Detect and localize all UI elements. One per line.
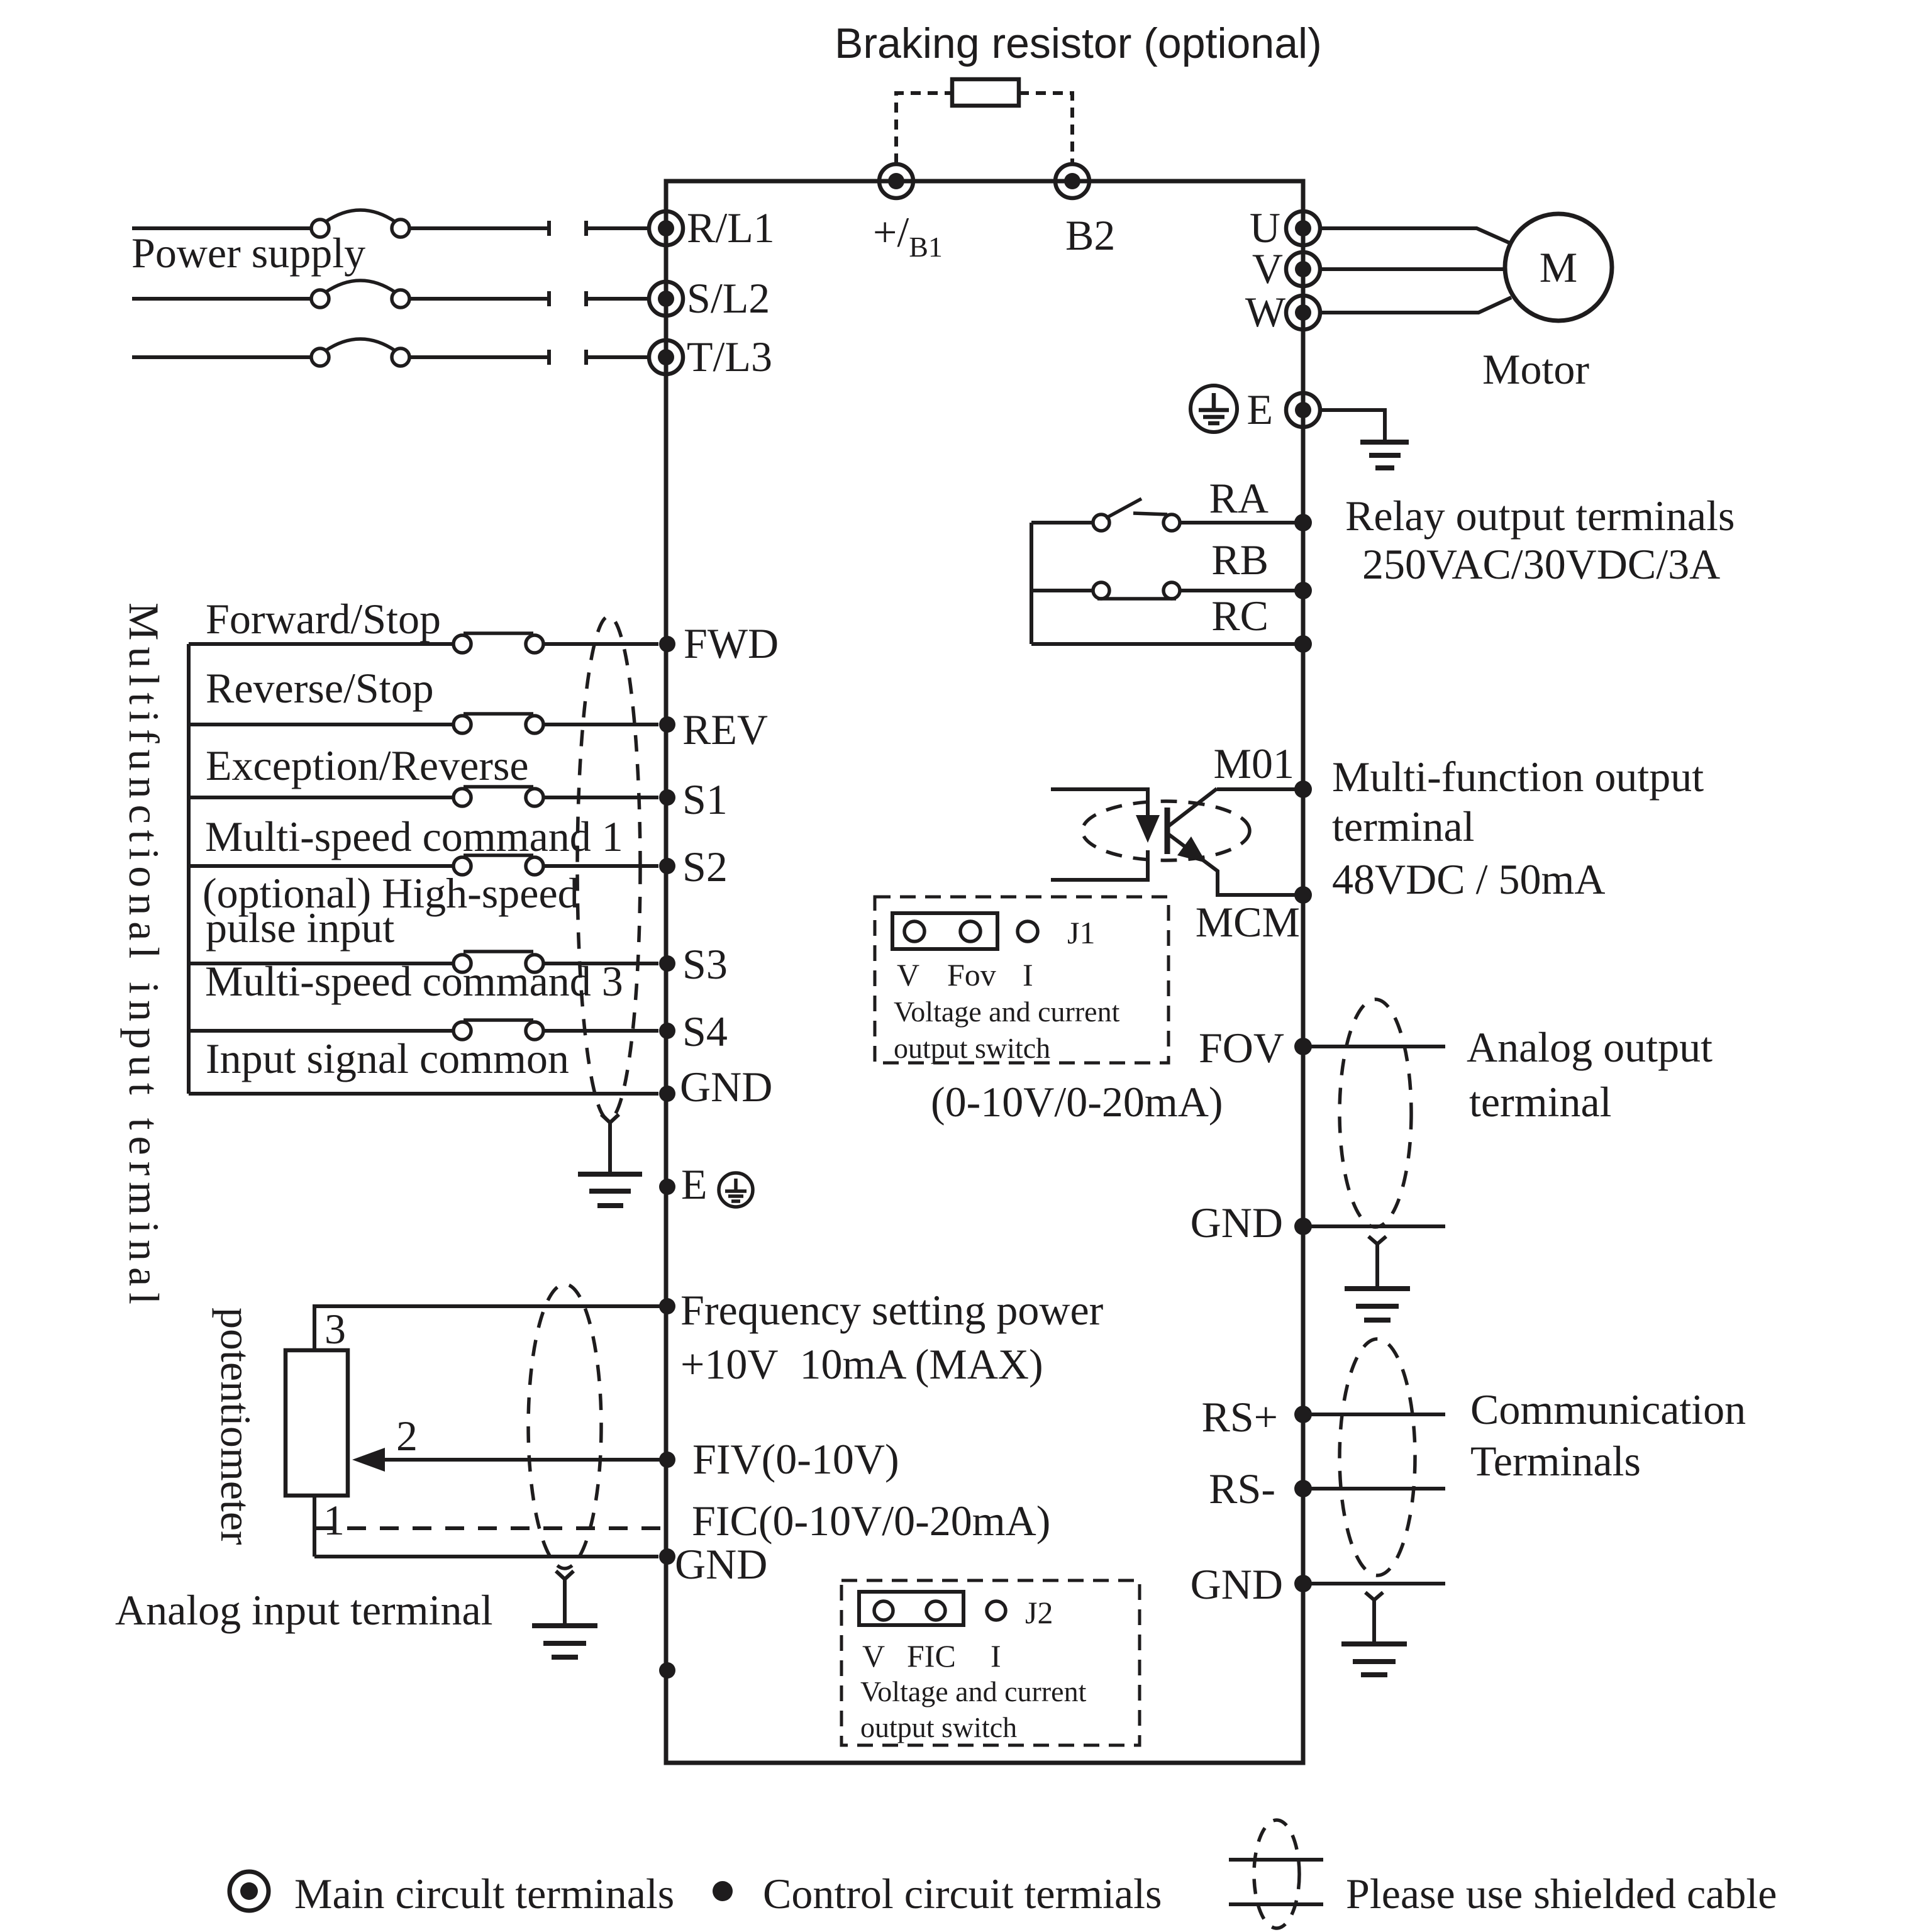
svg-text:output switch: output switch xyxy=(860,1711,1017,1743)
svg-text:output switch: output switch xyxy=(894,1032,1050,1064)
node frequency power xyxy=(659,1298,675,1314)
shield ellipse communication xyxy=(1340,1339,1415,1575)
wire GND analog input xyxy=(314,1555,658,1558)
svg-text:J1: J1 xyxy=(1067,915,1095,950)
svg-text:S1: S1 xyxy=(682,775,728,823)
svg-text:pulse input: pulse input xyxy=(206,904,394,952)
svg-text:I: I xyxy=(1023,957,1033,992)
terminal B2 xyxy=(1055,164,1089,198)
wire E to ground xyxy=(1320,410,1385,441)
optocoupler U2 xyxy=(1051,789,1303,895)
svg-text:GND: GND xyxy=(680,1063,772,1111)
svg-text:Analog input terminal: Analog input terminal xyxy=(115,1586,493,1634)
svg-text:terminal: terminal xyxy=(1469,1078,1612,1126)
row GND xyxy=(189,1092,658,1096)
svg-text:V: V xyxy=(897,957,919,992)
terminal T/L3 xyxy=(649,340,683,374)
svg-text:Exception/Reverse: Exception/Reverse xyxy=(206,741,529,789)
svg-text:RS-: RS- xyxy=(1209,1465,1275,1513)
node RS- xyxy=(1294,1480,1312,1497)
wire dashed braking resistor left xyxy=(896,93,952,164)
svg-text:+10V 10mA (MAX): +10V 10mA (MAX) xyxy=(680,1340,1043,1388)
svg-text:Analog output: Analog output xyxy=(1467,1023,1713,1071)
svg-text:W: W xyxy=(1245,288,1286,336)
PE symbol left xyxy=(719,1173,753,1207)
svg-text:1: 1 xyxy=(323,1496,345,1544)
svg-text:GND: GND xyxy=(1191,1199,1283,1246)
ground input shield xyxy=(601,1114,619,1174)
svg-text:J2: J2 xyxy=(1025,1595,1053,1630)
svg-text:Relay output terminals: Relay output terminals xyxy=(1345,492,1735,540)
terminal U xyxy=(1286,211,1320,245)
ground analog output xyxy=(1368,1236,1386,1289)
svg-text:Voltage and current: Voltage and current xyxy=(894,996,1120,1028)
wire RC xyxy=(1031,642,1303,646)
svg-text:S3: S3 xyxy=(682,940,728,988)
svg-text:FIC: FIC xyxy=(907,1638,956,1674)
node E left xyxy=(659,1179,675,1195)
svg-text:M: M xyxy=(1540,243,1577,291)
braking resistor R (optional) xyxy=(952,79,1019,106)
svg-text:48VDC / 50mA: 48VDC / 50mA xyxy=(1332,855,1605,903)
svg-text:FWD: FWD xyxy=(684,619,779,667)
node GND analog xyxy=(1294,1218,1312,1235)
svg-text:FIV(0-10V): FIV(0-10V) xyxy=(692,1435,899,1483)
node RA xyxy=(1294,514,1312,531)
svg-text:terminal: terminal xyxy=(1332,802,1475,850)
ground communication xyxy=(1365,1592,1383,1644)
terminal V xyxy=(1286,252,1320,286)
wire GND analog xyxy=(1303,1224,1445,1228)
node RB xyxy=(1294,582,1312,599)
wire V to motor xyxy=(1320,267,1506,271)
PE symbol right xyxy=(1191,386,1237,432)
terminal W xyxy=(1286,296,1320,330)
input rows left bus xyxy=(187,644,191,1094)
svg-text:Multi-function output: Multi-function output xyxy=(1332,753,1704,801)
legend main circuit terminal symbol xyxy=(230,1872,269,1911)
optocoupler dashed ellipse xyxy=(1082,801,1250,860)
svg-text:Forward/Stop: Forward/Stop xyxy=(206,595,441,643)
row S2 xyxy=(189,864,658,868)
wire RS+ xyxy=(1303,1413,1445,1416)
svg-text:RB: RB xyxy=(1211,536,1269,584)
svg-text:Fov: Fov xyxy=(947,957,996,992)
node FIV xyxy=(659,1452,675,1468)
shield ellipse input xyxy=(577,616,640,1119)
svg-text:R/L1: R/L1 xyxy=(687,204,775,252)
svg-text:T/L3: T/L3 xyxy=(687,333,772,380)
node spare xyxy=(659,1662,675,1679)
svg-text:Power supply: Power supply xyxy=(131,229,365,277)
svg-text:REV: REV xyxy=(682,706,768,753)
svg-text:potentiometer: potentiometer xyxy=(212,1307,260,1545)
J1 dashed box xyxy=(875,897,1169,1063)
node M01 xyxy=(1294,780,1312,798)
legend control circuit terminal symbol xyxy=(713,1881,733,1901)
svg-text:S/L2: S/L2 xyxy=(687,274,770,322)
svg-text:Control circuit termials: Control circuit termials xyxy=(763,1870,1162,1918)
row FWD xyxy=(189,642,658,646)
wire power line S with fuse and breaker xyxy=(132,280,649,308)
wire FIC dashed xyxy=(314,1526,665,1530)
wire pot pin1 xyxy=(313,1496,316,1557)
wire RS- xyxy=(1303,1487,1445,1491)
emitter arrow xyxy=(1177,836,1206,863)
svg-text:Input signal common: Input signal common xyxy=(206,1035,569,1082)
wire GND comm xyxy=(1303,1582,1445,1585)
svg-text:Motor: Motor xyxy=(1482,345,1589,393)
ground motor earth xyxy=(1360,442,1409,468)
wire dashed braking resistor right xyxy=(1019,93,1072,164)
svg-text:I: I xyxy=(991,1638,1001,1674)
svg-text:E: E xyxy=(681,1160,708,1208)
svg-text:RC: RC xyxy=(1211,592,1269,640)
inverter main box xyxy=(666,181,1303,1763)
ground analog input xyxy=(556,1571,574,1626)
node FOV xyxy=(1294,1038,1312,1055)
potentiometer RP xyxy=(286,1350,348,1496)
terminal S/L2 xyxy=(649,282,683,316)
svg-text:MCM: MCM xyxy=(1196,898,1300,946)
node RC xyxy=(1294,635,1312,653)
svg-text:FIC(0-10V/0-20mA): FIC(0-10V/0-20mA) xyxy=(692,1497,1050,1545)
wire power line R with fuse and breaker xyxy=(132,210,649,237)
svg-text:Please use shielded cable: Please use shielded cable xyxy=(1346,1870,1777,1918)
wire frequency power xyxy=(314,1306,667,1350)
svg-text:Reverse/Stop: Reverse/Stop xyxy=(206,664,434,712)
wire FOV xyxy=(1303,1045,1445,1048)
row REV xyxy=(189,723,658,726)
svg-text:V: V xyxy=(862,1638,885,1674)
node GND left xyxy=(659,1548,675,1565)
relay contact RA (open) xyxy=(1031,521,1303,525)
wire FIV with arrow xyxy=(380,1458,667,1462)
svg-text:Multi-speed command 1: Multi-speed command 1 xyxy=(205,813,623,860)
svg-text:M01: M01 xyxy=(1214,740,1294,787)
svg-text:Terminals: Terminals xyxy=(1470,1437,1641,1485)
svg-text:V: V xyxy=(1252,245,1283,292)
svg-text:FOV: FOV xyxy=(1199,1024,1284,1072)
node GND comm xyxy=(1294,1575,1312,1592)
svg-text:RS+: RS+ xyxy=(1201,1393,1278,1441)
svg-text:3: 3 xyxy=(325,1305,346,1353)
svg-text:Communication: Communication xyxy=(1470,1385,1746,1433)
svg-text:Main circult terminals: Main circult terminals xyxy=(294,1870,674,1918)
J2 jumper block xyxy=(859,1592,963,1625)
svg-text:(0-10V/0-20mA): (0-10V/0-20mA) xyxy=(931,1078,1223,1126)
row S1 xyxy=(189,796,658,799)
svg-text:Frequency setting power: Frequency setting power xyxy=(680,1286,1104,1334)
svg-text:RA: RA xyxy=(1209,474,1269,522)
J2 dashed box xyxy=(841,1580,1140,1745)
svg-text:Voltage and current: Voltage and current xyxy=(860,1675,1087,1707)
svg-text:S4: S4 xyxy=(682,1008,728,1055)
svg-text:Braking resistor (optional): Braking resistor (optional) xyxy=(835,19,1322,67)
svg-text:GND: GND xyxy=(675,1540,767,1588)
J1 jumper block xyxy=(892,913,997,949)
motor M1 xyxy=(1505,214,1612,321)
svg-text:250VAC/30VDC/3A: 250VAC/30VDC/3A xyxy=(1362,540,1720,588)
terminal R/L1 xyxy=(649,211,683,245)
relay left bus xyxy=(1030,523,1033,644)
terminal +/B1 xyxy=(879,164,913,198)
wire power line T with fuse and breaker xyxy=(132,339,649,366)
shield ellipse analog output xyxy=(1340,999,1411,1227)
row S4 xyxy=(189,1029,658,1033)
svg-text:Multi-speed command 3: Multi-speed command 3 xyxy=(205,957,623,1005)
LED arrow xyxy=(1136,815,1160,843)
relay contact RB (closed) xyxy=(1031,589,1303,592)
row S3 xyxy=(189,962,658,965)
svg-text:E: E xyxy=(1246,386,1273,433)
node MCM xyxy=(1294,886,1312,904)
wire W to motor xyxy=(1320,297,1511,313)
svg-text:GND: GND xyxy=(1191,1560,1283,1608)
svg-text:S2: S2 xyxy=(682,843,728,891)
svg-text:B2: B2 xyxy=(1065,211,1115,259)
svg-text:2: 2 xyxy=(396,1412,418,1460)
shield ellipse analog input xyxy=(528,1284,601,1568)
legend shield symbol xyxy=(1254,1820,1299,1928)
node RS+ xyxy=(1294,1406,1312,1423)
wire U to motor xyxy=(1320,228,1511,243)
terminal E right xyxy=(1286,393,1320,427)
